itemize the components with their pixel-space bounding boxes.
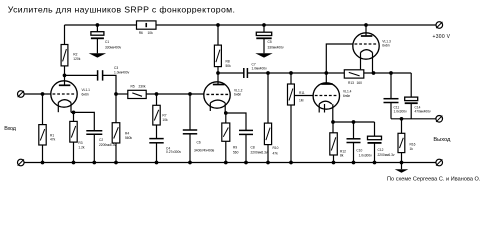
wire R7 to C4: [156, 125, 158, 139]
svg-text:1.0х300v: 1.0х300v: [359, 153, 373, 157]
svg-text:VL1.1: VL1.1: [82, 88, 91, 92]
resistor R1: [42, 94, 44, 125]
svg-text:1.2k: 1.2k: [78, 146, 85, 150]
wire bottom common rail: [24, 162, 436, 164]
node R11: [289, 71, 293, 75]
wire grid VL1.3 riser: [326, 44, 353, 73]
wire R5 to grid VL1.2: [146, 93, 204, 95]
resistor R12: [332, 122, 334, 133]
ground under C5: [255, 53, 272, 57]
node R4 / R5: [114, 92, 118, 96]
svg-text:R11: R11: [299, 91, 305, 95]
node cathode VL1.1: [72, 111, 76, 115]
svg-text:6н6п: 6н6п: [82, 93, 89, 97]
wire cathode VL1.1 jog: [71, 111, 74, 113]
resistor R10: [267, 73, 269, 123]
capacitor C7: [243, 68, 245, 78]
svg-text:470мк400v: 470мк400v: [415, 109, 432, 113]
svg-text:47k: 47k: [50, 138, 56, 142]
wire anode VL1.2 to C7: [218, 72, 244, 74]
svg-text:Усилитель для наушников SRPP с: Усилитель для наушников SRPP с фонкоррек…: [8, 4, 235, 14]
node anode VL1.1: [63, 74, 67, 78]
wire cathode stub VL1.4: [324, 104, 326, 113]
resistor R3: [73, 112, 75, 121]
resistor R2: [61, 45, 68, 66]
node rail junctions: [41, 161, 45, 165]
svg-text:2200мк6.3v: 2200мк6.3v: [378, 153, 395, 157]
svg-text:По схеме Сергеева С. и Иванова: По схеме Сергеева С. и Иванова О.: [387, 176, 480, 182]
svg-text:C2: C2: [99, 138, 103, 142]
node R10: [266, 71, 270, 75]
svg-text:R6: R6: [139, 31, 143, 35]
svg-text:VL1.4: VL1.4: [343, 90, 352, 94]
node C11: [389, 71, 393, 75]
wire anode lead VL1.3: [365, 25, 367, 36]
terminal +300V: [436, 22, 443, 29]
capacitor C5: [262, 23, 266, 27]
capacitor C14: [410, 73, 412, 97]
wire cathode row to C12: [333, 121, 375, 123]
capacitor C2: [86, 130, 102, 132]
svg-text:R4: R4: [125, 131, 129, 135]
wire anode lead VL1.1: [64, 75, 66, 85]
wire grid VL1.4: [294, 95, 313, 97]
svg-text:6н6п: 6н6п: [382, 43, 389, 47]
wire input to grid: [24, 93, 51, 95]
wire cathode to C8: [226, 113, 246, 130]
svg-text:1.0мк400v: 1.0мк400v: [114, 70, 130, 74]
svg-text:R9: R9: [233, 146, 237, 150]
tube V1.3 triode upper SRPP: [353, 33, 379, 59]
node grid VL1.1 / R1: [41, 92, 45, 96]
svg-text:47k: 47k: [273, 151, 279, 155]
resistor R7: [156, 94, 158, 105]
resistor R16: [401, 119, 403, 134]
capacitor C10: [353, 122, 355, 139]
wire cathode lead VL1.4: [332, 104, 334, 122]
node anode VL1.4 / grid VL1.3 riser: [324, 71, 328, 75]
svg-text:R8: R8: [226, 60, 230, 64]
capacitor C6: [189, 94, 191, 130]
svg-text:2200мк6.3v: 2200мк6.3v: [251, 150, 268, 154]
svg-text:C8: C8: [251, 146, 255, 150]
svg-text:6н6п: 6н6п: [234, 93, 241, 97]
wire C3 to grid node 2: [103, 75, 116, 122]
svg-text:0.27х300v: 0.27х300v: [166, 150, 181, 154]
svg-text:230k: 230k: [139, 85, 146, 89]
svg-text:1k: 1k: [410, 147, 414, 151]
wire cathode to C2: [74, 112, 95, 130]
svg-text:6н6п: 6н6п: [343, 94, 350, 98]
svg-text:560: 560: [233, 150, 239, 154]
svg-text:C5: C5: [268, 40, 272, 44]
node R16: [400, 117, 404, 121]
wire to output terminal: [391, 118, 436, 120]
node C10: [352, 120, 356, 124]
svg-text:R2: R2: [73, 53, 77, 57]
resistor R13: [344, 70, 364, 78]
svg-text:C1: C1: [105, 40, 109, 44]
capacitor C8: [239, 129, 253, 131]
node C6: [188, 92, 192, 96]
svg-text:10k: 10k: [162, 118, 168, 122]
svg-text:C12: C12: [378, 148, 384, 152]
svg-text:1M: 1M: [299, 98, 304, 102]
terminal input upper: [18, 91, 25, 98]
svg-text:Выход: Выход: [433, 137, 451, 143]
wire top B+ rail: [65, 24, 437, 26]
svg-text:Вход: Вход: [4, 126, 17, 132]
terminal input lower: [18, 159, 25, 166]
node cathode VL1.4: [331, 120, 335, 124]
wire output node: [364, 72, 411, 74]
svg-text:R5: R5: [131, 85, 135, 89]
svg-text:120k: 120k: [73, 57, 80, 61]
ground on bottom rail: [401, 163, 403, 170]
node cathode VL1.3: [372, 71, 376, 75]
svg-text:C10: C10: [356, 149, 362, 153]
svg-text:VL1.2: VL1.2: [234, 88, 243, 92]
wire anode lead VL1.2: [217, 73, 219, 85]
svg-text:3400пФх400в: 3400пФх400в: [194, 148, 215, 152]
svg-text:+300 V: +300 V: [433, 34, 451, 40]
resistor R5: [128, 90, 146, 98]
svg-text:C6: C6: [197, 140, 201, 144]
svg-text:330мк400v: 330мк400v: [105, 46, 122, 50]
svg-text:R16: R16: [410, 143, 416, 147]
resistor R9: [225, 113, 227, 123]
svg-text:10k: 10k: [148, 31, 154, 35]
svg-text:1.0мк400v: 1.0мк400v: [252, 67, 268, 71]
resistor R11: [290, 73, 292, 84]
resistor R4: [112, 123, 120, 143]
svg-text:8k: 8k: [340, 153, 344, 157]
svg-text:R10: R10: [273, 146, 279, 150]
svg-text:1.0х300v: 1.0х300v: [394, 109, 408, 113]
node B+ R8: [216, 23, 220, 27]
capacitor C4: [149, 138, 163, 140]
node cathode VL1.2: [224, 111, 228, 115]
capacitor C3: [97, 70, 99, 80]
svg-text:R13: R13: [348, 81, 354, 85]
tube V1.2 triode: [204, 82, 230, 108]
tube V1.1 triode: [51, 81, 77, 107]
svg-text:560k: 560k: [125, 136, 132, 140]
svg-text:160: 160: [357, 81, 363, 85]
wire anode lead VL1.4: [325, 73, 327, 84]
svg-text:330мк400v: 330мк400v: [268, 46, 285, 50]
wire node to R5: [116, 93, 128, 95]
capacitor C1: [96, 23, 100, 27]
capacitor C12: [374, 122, 376, 136]
wire R2 to anode node: [64, 66, 66, 76]
wire anode row to C3: [65, 74, 98, 76]
svg-text:50k: 50k: [226, 64, 232, 68]
resistor R8: [217, 25, 219, 45]
node anode VL1.2: [216, 71, 220, 75]
ground under C1: [89, 53, 106, 57]
node B+ VL1.3: [364, 23, 368, 27]
resistor R6 in B+ rail: [137, 21, 157, 29]
terminal output lower: [436, 159, 443, 166]
capacitor C11: [390, 73, 392, 99]
terminal output upper: [436, 116, 443, 123]
wire C7 to SRPP mid node: [247, 72, 344, 74]
node R7: [155, 92, 159, 96]
wire left rail drop to R2: [64, 25, 66, 45]
tube V1.4 triode lower SRPP: [313, 83, 339, 109]
